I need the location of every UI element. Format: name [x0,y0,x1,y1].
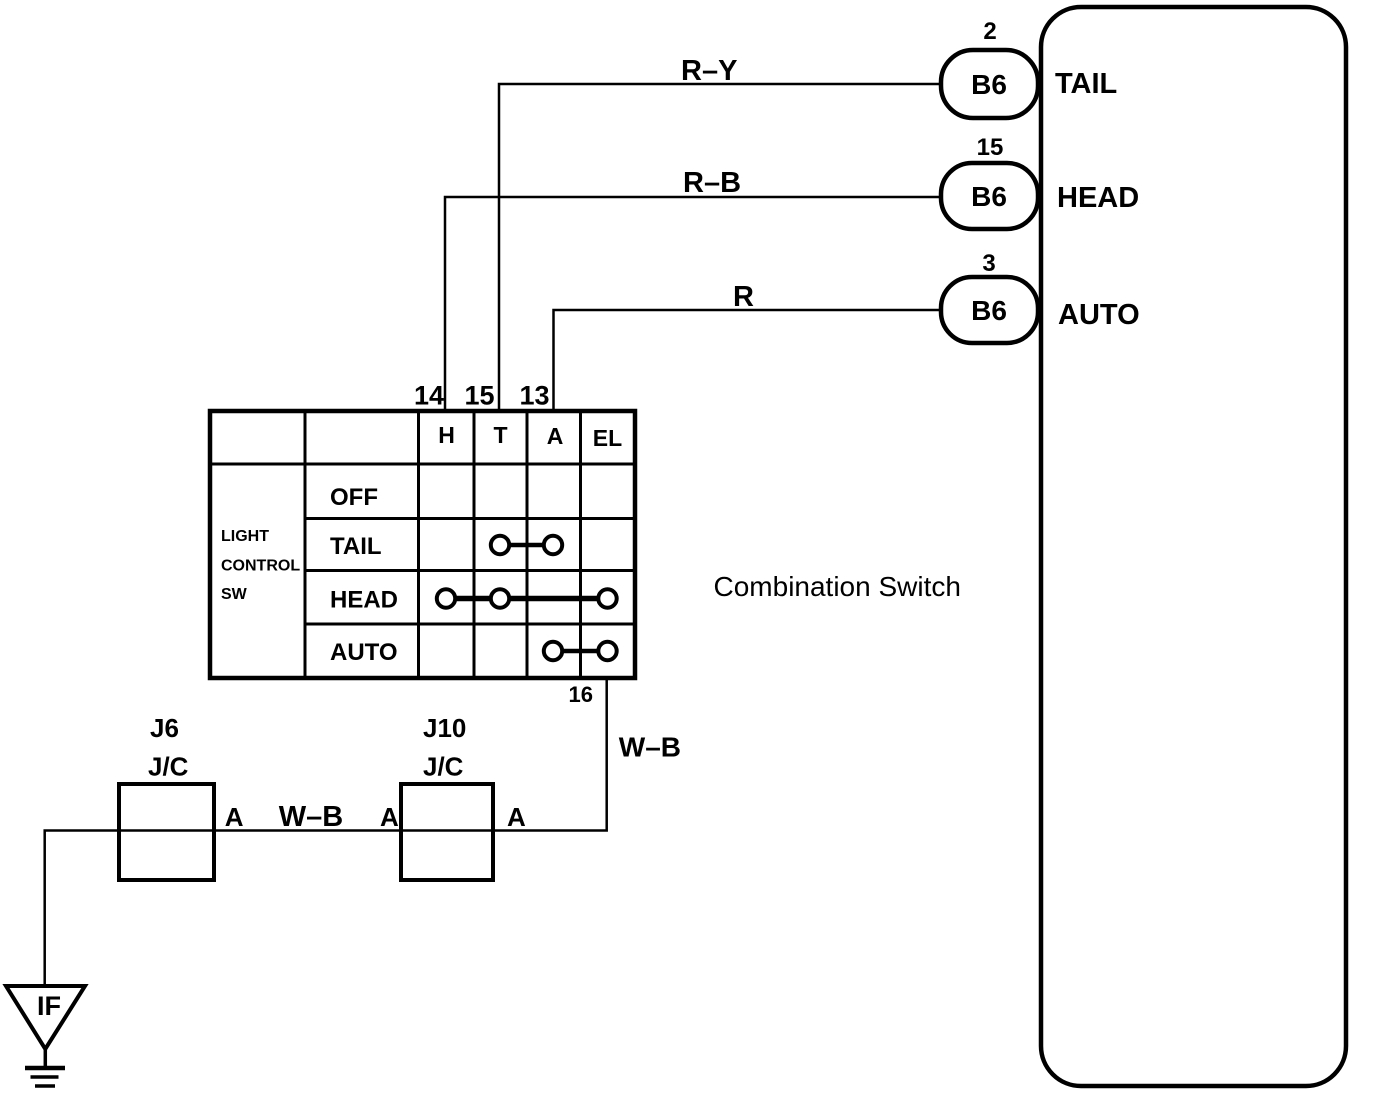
ground IF triangle [6,986,85,1049]
wire R (pin 13 A to AUTO B6) [554,310,942,411]
AUTO row contact circle EL [598,642,616,660]
connector B6 HEAD [941,163,1038,229]
svg-text:T: T [493,422,507,448]
TAIL row contact circle T [491,536,509,554]
svg-text:13: 13 [520,381,550,411]
wire W-B (pin 16 down to junction run) [45,678,607,986]
HEAD row contact circle H [437,589,455,607]
svg-text:J10: J10 [423,713,466,743]
TAIL row contact circle A [544,536,562,554]
HEAD row contact bar [446,596,608,602]
svg-text:R–Y: R–Y [681,55,737,87]
ground bar 3 [35,1084,55,1088]
svg-text:J/C: J/C [423,752,464,782]
svg-text:W–B: W–B [279,801,343,833]
svg-text:J/C: J/C [148,752,189,782]
table row line HEAD/AUTO [305,623,635,626]
svg-text:A: A [547,423,564,449]
svg-text:CONTROL: CONTROL [221,558,300,575]
svg-text:J6: J6 [150,713,179,743]
svg-text:16: 16 [569,682,593,707]
svg-text:AUTO: AUTO [1058,299,1140,331]
AUTO row contact bar [553,649,608,654]
table row line TAIL/HEAD [305,569,635,572]
svg-text:TAIL: TAIL [330,533,382,560]
table column line 2 [417,411,420,678]
wire R-Y (pin 15 T to TAIL B6) [499,84,941,411]
HEAD row contact circle T [491,589,509,607]
combination switch body outline [1041,7,1346,1086]
svg-text:A: A [225,802,244,832]
svg-text:B6: B6 [971,181,1007,212]
ground bar 1 [25,1066,65,1071]
svg-text:EL: EL [593,425,622,451]
table column line 3 [473,411,476,678]
svg-text:A: A [507,802,526,832]
table row line OFF/TAIL [305,517,635,520]
connector B6 AUTO [941,277,1038,343]
junction J6 box [119,784,214,880]
svg-text:2: 2 [983,18,996,45]
svg-text:H: H [438,422,455,448]
svg-text:B6: B6 [971,69,1007,100]
svg-text:14: 14 [414,381,444,411]
table column line 5 [579,411,582,678]
table header row line [210,463,635,466]
table column line 1 [304,411,307,678]
table column line 4 [526,411,529,678]
svg-text:R: R [733,281,754,313]
svg-text:W–B: W–B [619,732,681,763]
svg-text:Combination Switch: Combination Switch [714,571,961,602]
wire R-B (pin 14 H to HEAD B6) [445,197,941,411]
ground stem [44,1049,48,1068]
ground bar 2 [31,1075,59,1079]
AUTO row contact circle A [544,642,562,660]
label LIGHT CONTROL SW [221,528,300,603]
TAIL row contact bar [500,543,553,548]
svg-text:15: 15 [977,134,1004,161]
junction J10 box [401,784,493,880]
svg-text:B6: B6 [971,295,1007,326]
svg-text:HEAD: HEAD [1057,182,1139,214]
svg-text:HEAD: HEAD [330,587,398,614]
HEAD row contact circle EL [598,589,616,607]
table outer border [210,411,635,678]
svg-text:A: A [380,802,399,832]
svg-text:LIGHT: LIGHT [221,528,269,545]
svg-text:15: 15 [465,381,495,411]
svg-text:SW: SW [221,586,248,603]
svg-text:OFF: OFF [330,484,378,511]
svg-text:R–B: R–B [683,167,741,199]
svg-text:TAIL: TAIL [1055,68,1117,100]
svg-text:3: 3 [982,250,995,277]
light control switch table [210,411,635,678]
svg-text:IF: IF [37,991,61,1021]
connector B6 TAIL [941,50,1038,118]
svg-text:AUTO: AUTO [330,639,398,666]
